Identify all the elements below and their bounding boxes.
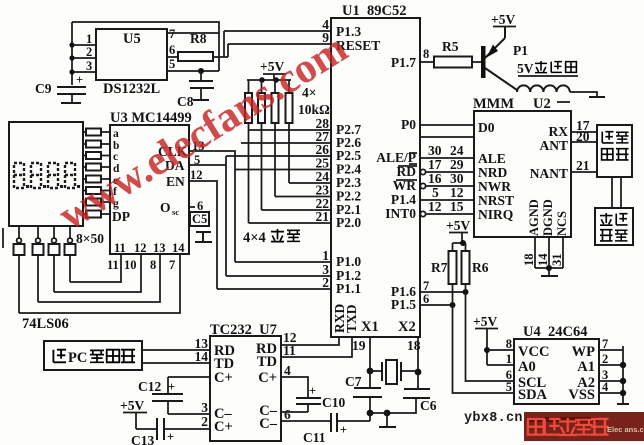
wire P1.2 [226, 275, 331, 277]
resistor network 8x50 : resistors a..DP [83, 129, 110, 218]
capacitor (X1 side) [369, 371, 371, 388]
svg-text:A0: A0 [518, 359, 536, 375]
svg-text:P0: P0 [401, 117, 416, 132]
node C8 junction [198, 68, 204, 74]
transistor P1 [481, 46, 486, 78]
svg-text:MMM: MMM [473, 96, 514, 112]
wire TD 14 [142, 362, 210, 364]
svg-text:P1: P1 [513, 43, 528, 58]
svg-text:3: 3 [201, 400, 208, 415]
capacitor C6 [417, 372, 419, 389]
svg-text:5: 5 [506, 380, 512, 394]
svg-text:P1.0: P1.0 [336, 254, 361, 269]
svg-text:P1.7: P1.7 [391, 55, 416, 70]
op-amp U5 DS1232L box [96, 29, 167, 80]
wire P1.5 [420, 304, 453, 306]
overlines [396, 153, 417, 180]
svg-text:+: + [309, 384, 316, 398]
svg-text:11: 11 [114, 241, 126, 255]
svg-text:74LS06: 74LS06 [22, 316, 69, 332]
svg-text:VCC: VCC [518, 344, 549, 360]
bottom node + ground [367, 410, 374, 417]
wire TD 11 [281, 337, 352, 357]
svg-text:20: 20 [576, 129, 590, 144]
capacitor C11 [281, 420, 331, 422]
svg-text:TD: TD [257, 354, 277, 370]
pin 6 wire [167, 56, 178, 58]
capacitor C5 [190, 212, 209, 226]
wire RD 13 [142, 349, 210, 351]
wire VSS [599, 392, 623, 394]
P0 bus wires [420, 125, 474, 137]
svg-text:P2.0: P2.0 [336, 215, 361, 230]
pin 2 [72, 57, 96, 59]
wire X2 [417, 337, 419, 372]
svg-text:1: 1 [86, 32, 92, 46]
wire R7 to SDA [453, 284, 515, 393]
svg-text:C6: C6 [420, 398, 437, 413]
svg-text:5: 5 [169, 57, 175, 71]
svg-text:2: 2 [602, 352, 608, 366]
svg-text:U1 89C52: U1 89C52 [342, 3, 406, 19]
svg-text:+: + [76, 73, 83, 87]
svg-text:6: 6 [169, 43, 175, 57]
svg-text:5V: 5V [517, 61, 534, 76]
svg-text:+5V: +5V [473, 314, 497, 329]
svg-text:R8: R8 [190, 31, 207, 46]
svg-text:+: + [340, 423, 347, 437]
svg-text:4: 4 [284, 363, 291, 378]
svg-text:14: 14 [195, 349, 209, 364]
svg-text:ANT: ANT [539, 138, 568, 153]
svg-text:NANT: NANT [530, 166, 568, 181]
svg-text:7: 7 [602, 337, 608, 351]
svg-text:C+: C+ [258, 370, 277, 386]
svg-text:7: 7 [169, 27, 175, 41]
svg-text:AGND: AGND [527, 199, 541, 236]
svg-text:C5: C5 [192, 212, 207, 226]
svg-text:A1: A1 [577, 359, 595, 375]
wire RD 12 [281, 337, 339, 345]
svg-text:R5: R5 [442, 39, 459, 54]
wire RD/NRD [420, 169, 425, 174]
wire P1.1 [217, 288, 331, 290]
svg-text:12: 12 [450, 185, 464, 200]
svg-text:18: 18 [522, 254, 536, 267]
svg-text:21: 21 [576, 158, 590, 173]
svg-text:2: 2 [86, 45, 92, 59]
node dots pins 1-3 [69, 42, 74, 47]
svg-text:U2: U2 [533, 96, 551, 112]
svg-text:NCS: NCS [555, 211, 569, 236]
wire A0 [487, 364, 514, 366]
svg-text:C+: C+ [214, 370, 233, 386]
svg-text:7: 7 [169, 258, 175, 272]
wire P1.0 [235, 261, 331, 263]
svg-text:P1.4: P1.4 [391, 192, 416, 207]
wire WP [599, 349, 623, 351]
svg-text:P1.3: P1.3 [336, 24, 361, 39]
svg-text:10kΩ: 10kΩ [298, 102, 330, 117]
svg-text:C8: C8 [177, 94, 194, 109]
svg-text:DS1232L: DS1232L [103, 81, 161, 97]
wire P2.2 [275, 196, 331, 198]
pull-up columns down to P2.0-P2.3 rows [249, 123, 290, 223]
svg-text:17: 17 [428, 157, 442, 172]
wire P2.6 [241, 142, 331, 144]
svg-text:VSS: VSS [568, 387, 595, 403]
driver 4 [69, 226, 71, 238]
wires U3 bottom to 74LS06 [70, 254, 121, 282]
segment pin labels [113, 128, 120, 210]
wire P2.4 [235, 169, 331, 171]
wire P2.3 [289, 182, 331, 184]
svg-text:12: 12 [190, 168, 203, 182]
svg-text:a: a [113, 128, 119, 140]
svg-text:12: 12 [428, 199, 442, 214]
right bus + dots [622, 346, 624, 404]
svg-text:U5: U5 [123, 31, 141, 47]
svg-text:P1.1: P1.1 [336, 281, 361, 296]
svg-text:8: 8 [506, 337, 512, 351]
svg-text:16: 16 [428, 171, 442, 186]
svg-text:+: + [168, 380, 175, 394]
ground (C9) [61, 102, 81, 104]
wire WR/NWR [420, 183, 425, 188]
5V buzzer label [517, 61, 578, 76]
svg-text:6: 6 [423, 292, 429, 306]
induction antenna box [595, 208, 633, 245]
wire left vertical joining pins 1,2,3 [71, 22, 73, 85]
svg-text:13: 13 [153, 241, 166, 255]
svg-text:O: O [160, 200, 171, 215]
svg-text:P1.5: P1.5 [391, 297, 416, 312]
svg-text:11: 11 [107, 258, 119, 272]
svg-text:C–: C– [259, 416, 277, 432]
svg-text:NRST: NRST [478, 193, 514, 208]
resistor array 4x10k [249, 80, 290, 93]
svg-text:U4 24C64: U4 24C64 [523, 324, 587, 340]
svg-text:SDA: SDA [518, 387, 548, 403]
svg-text:4: 4 [602, 380, 609, 394]
svg-text:Elec ans.com: Elec ans.com [607, 425, 644, 434]
svg-text:C10: C10 [322, 395, 345, 410]
wire EN to P1.1 [189, 181, 217, 289]
svg-text:1: 1 [506, 352, 512, 366]
svg-text:5: 5 [432, 185, 439, 200]
svg-text:30: 30 [428, 143, 442, 158]
svg-text:1: 1 [322, 248, 329, 263]
bus bar [247, 79, 291, 81]
svg-text:sc: sc [172, 207, 179, 217]
driver 3 [53, 226, 55, 238]
svg-text:R6: R6 [472, 260, 489, 275]
svg-text:6: 6 [197, 199, 203, 213]
svg-text:14: 14 [536, 253, 550, 266]
ground (U4) [617, 403, 629, 405]
svg-text:12: 12 [134, 241, 147, 255]
svg-text:C13: C13 [131, 433, 154, 445]
svg-text:3: 3 [86, 59, 92, 73]
svg-text:+5V: +5V [120, 398, 144, 413]
wire ANT [571, 141, 597, 143]
svg-text:21: 21 [316, 209, 330, 224]
svg-text:RX: RX [549, 124, 569, 139]
pin 5 wire [167, 70, 219, 72]
svg-text:TXD: TXD [344, 304, 359, 333]
PC-connect box [44, 341, 142, 370]
svg-text:30: 30 [450, 171, 464, 186]
svg-text:8: 8 [423, 47, 429, 61]
svg-text:10: 10 [124, 258, 137, 272]
svg-text:2: 2 [201, 414, 208, 429]
wire RX [571, 131, 597, 133]
svg-text:2: 2 [322, 275, 329, 290]
svg-text:C9: C9 [35, 81, 52, 96]
svg-text:+5V: +5V [491, 12, 515, 27]
wire P1.6 [420, 291, 466, 293]
U2 ground pins 18 14 31 [535, 237, 563, 268]
pin numbers [316, 116, 330, 224]
wire to U1 pin4 [224, 31, 331, 57]
driver 1 [18, 226, 20, 238]
label 4x4 keypad [243, 229, 300, 246]
wire X1 [369, 337, 371, 371]
svg-text:C+: C+ [214, 419, 233, 435]
svg-text:C7: C7 [345, 374, 362, 389]
wire NANT [571, 171, 597, 173]
svg-text:19: 19 [352, 338, 366, 353]
svg-text:NRD: NRD [478, 165, 507, 180]
wire DA to P1.2 [189, 156, 226, 276]
wire VCC [487, 349, 514, 351]
inductor / buzzer coil [517, 85, 570, 92]
svg-text:+5V: +5V [446, 218, 470, 233]
digits 8.8.8.8 [14, 163, 75, 188]
svg-text:4×4: 4×4 [243, 230, 266, 246]
wire ALE [420, 157, 474, 159]
svg-text:NWR: NWR [478, 179, 511, 194]
svg-text:X1: X1 [361, 319, 379, 335]
wire P1.4/NRST [420, 199, 474, 201]
wire top loop from U5 pins 1-3 column to right side [72, 22, 219, 71]
display module box [9, 122, 83, 226]
pin 1 [72, 44, 96, 46]
wire CLK to P1.0 [189, 151, 235, 262]
svg-text:14: 14 [172, 241, 185, 255]
svg-text:24: 24 [450, 143, 464, 158]
wire P1.7 to R5 [420, 61, 434, 63]
svg-text:11: 11 [283, 343, 296, 358]
svg-text:6: 6 [284, 407, 291, 422]
svg-text:ybx8.cn: ybx8.cn [464, 411, 523, 426]
svg-text:31: 31 [550, 254, 564, 267]
svg-text:NIRQ: NIRQ [478, 207, 513, 222]
stray scan line [2, 228, 4, 248]
wire P2.0 [249, 222, 332, 224]
svg-text:PC: PC [68, 350, 87, 366]
svg-text:29: 29 [450, 157, 464, 172]
wire INT0/NIRQ [420, 211, 425, 216]
svg-text:C12: C12 [138, 379, 161, 394]
wire P2.7 [249, 129, 332, 131]
svg-text:ALE: ALE [478, 151, 506, 166]
pin 3 [72, 71, 96, 73]
svg-text:X2: X2 [398, 319, 416, 335]
svg-text:D0: D0 [478, 120, 495, 135]
capacitor C13 [136, 428, 157, 430]
pin 7 wire [167, 32, 219, 34]
ground (U2) [548, 268, 550, 276]
svg-text:C11: C11 [303, 430, 326, 445]
svg-text:DGND: DGND [541, 199, 555, 236]
svg-text:INT0: INT0 [385, 206, 416, 221]
driver 2 [37, 226, 39, 238]
wire A2 [599, 380, 623, 382]
svg-text:8: 8 [150, 258, 156, 272]
capacitor C8 [200, 71, 202, 80]
svg-text:R7: R7 [431, 260, 448, 275]
wire R6 to SCL [466, 284, 515, 381]
svg-text:WP: WP [572, 344, 596, 360]
wire P2.5 [226, 155, 331, 157]
wire A1 [599, 364, 623, 366]
svg-text:+: + [167, 430, 174, 444]
svg-text:7: 7 [423, 279, 429, 293]
wire P2.1 [262, 209, 332, 211]
wire pair to antenna [612, 177, 621, 208]
svg-text:15: 15 [450, 199, 464, 214]
wire to U1 pin9 RESET [228, 44, 331, 57]
